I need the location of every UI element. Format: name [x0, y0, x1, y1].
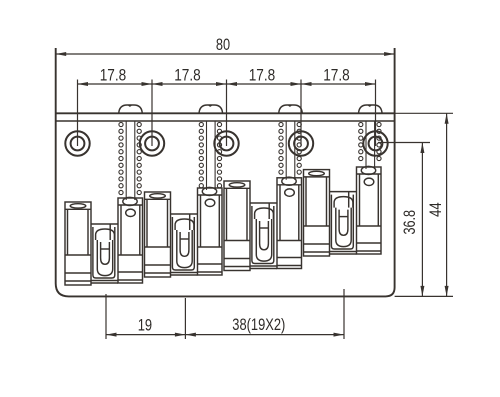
svg-text:17.8: 17.8 [100, 66, 127, 85]
svg-text:17.8: 17.8 [174, 66, 201, 85]
intonation spring 4 coils [359, 122, 381, 160]
mounting hole 4 inner [294, 137, 308, 151]
mounting hole 2 inner [145, 137, 159, 151]
intonation screw 3 shaft [286, 121, 295, 180]
svg-text:17.8: 17.8 [249, 66, 276, 85]
dimension 44 line [446, 113, 448, 296]
roller saddle 3 [224, 177, 302, 270]
extension line saddle2 center [184, 298, 186, 339]
plate top edge line 2 (flange) [56, 120, 395, 122]
dimension 36.8 line [421, 143, 423, 297]
bridge base plate outline [56, 48, 395, 296]
roller saddle 4 [304, 166, 382, 256]
mounting hole 1 inner [71, 137, 85, 151]
mounting hole 4 outer [289, 131, 313, 155]
svg-text:38(19X2): 38(19X2) [232, 315, 285, 334]
extension line bottom-right (plate bottom) [395, 295, 453, 297]
mounting hole 3 outer [214, 131, 238, 155]
svg-text:80: 80 [216, 35, 230, 54]
intonation spring 1 coils [119, 122, 141, 194]
extension line saddle4 center [343, 289, 345, 339]
intonation spring 3 coils [279, 122, 301, 174]
intonation screw 4 shaft [366, 121, 375, 169]
intonation screw 2 head on flange [199, 105, 223, 113]
svg-text:44: 44 [426, 202, 445, 217]
intonation screw 4 head on flange [359, 105, 383, 113]
extension line hole-center-right [378, 142, 430, 144]
extension line saddle1 center [105, 294, 107, 339]
plate top edge line 1 [56, 112, 395, 114]
intonation screw 1 head on flange [119, 105, 143, 113]
svg-text:36.8: 36.8 [400, 210, 419, 235]
mounting hole 5 outer [363, 131, 387, 155]
svg-text:19: 19 [138, 315, 152, 334]
mounting hole 2 outer [140, 131, 164, 155]
intonation screw 1 shaft [126, 121, 135, 200]
svg-text:17.8: 17.8 [323, 66, 350, 85]
intonation spring 2 coils [199, 122, 221, 187]
roller saddle 2 [145, 187, 223, 277]
intonation screw 2 shaft [207, 121, 216, 190]
mounting hole 5 inner [369, 137, 383, 151]
dimension 80 line [56, 53, 395, 55]
mounting hole 1 outer [65, 131, 89, 155]
roller saddle 1 [65, 197, 143, 285]
dimension 17.8 chain lines and extension lines [78, 83, 376, 85]
extension line top-right (plate top) [395, 112, 453, 114]
mounting hole 3 inner [220, 137, 234, 151]
dimension 38(19X2) line [185, 334, 344, 336]
dimension 19 line [106, 334, 185, 336]
intonation screw 3 head on flange [279, 105, 303, 113]
